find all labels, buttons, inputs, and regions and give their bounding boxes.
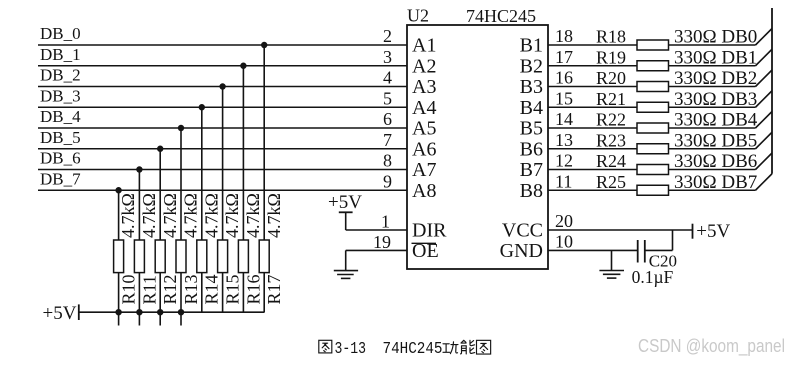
capacitor C20 plates [637, 240, 639, 263]
svg-text:DB_4: DB_4 [40, 107, 81, 126]
wire R12 vertical [159, 149, 161, 240]
svg-text:R23: R23 [596, 130, 626, 150]
resistor R14 body [197, 240, 207, 273]
svg-text:A6: A6 [412, 138, 436, 160]
bus entry DB1 diagonal [756, 49, 773, 66]
svg-text:A8: A8 [412, 180, 436, 202]
wire B1 (pin 18) to R18 [548, 44, 637, 46]
resistor R21 body [637, 102, 669, 112]
svg-text:DB_0: DB_0 [40, 24, 81, 43]
power +5V bar symbol (VCC) [692, 224, 694, 239]
svg-text:+5V: +5V [328, 192, 362, 213]
svg-text:R24: R24 [596, 151, 626, 171]
wire GND tap [611, 250, 613, 270]
resistor R13 body [176, 240, 186, 273]
ground symbol (OE) [334, 270, 358, 272]
svg-text:R14: R14 [202, 274, 222, 304]
resistor R17 body [259, 240, 269, 273]
svg-text:R20: R20 [596, 68, 626, 88]
resistor R12 body [155, 240, 165, 273]
wire +5V rail [79, 311, 265, 313]
junction rail/R12 [157, 309, 163, 315]
wire R11 vertical [138, 170, 140, 241]
wire DB_5 (to pin 7) [38, 148, 407, 150]
wire DB_1 (to pin 3) [38, 65, 407, 67]
svg-text:R19: R19 [596, 47, 626, 67]
svg-text:R21: R21 [596, 89, 626, 109]
svg-text:74HC245: 74HC245 [383, 339, 443, 358]
wire stub below rail at R11 [138, 312, 140, 325]
svg-text:17: 17 [555, 47, 573, 67]
wire R14 vertical [201, 107, 203, 240]
resistor R20 body [637, 82, 669, 92]
svg-text:R12: R12 [160, 274, 180, 304]
svg-text:4.7kΩ: 4.7kΩ [264, 193, 284, 238]
wire stub below rail at R10 [118, 312, 120, 325]
wire stub below rail at R13 [180, 312, 182, 325]
svg-text:330Ω DB4: 330Ω DB4 [674, 110, 758, 131]
svg-text:10: 10 [555, 231, 573, 251]
op-amp U2 74HC245 IC body [407, 25, 548, 269]
resistor R24 body [637, 165, 669, 175]
svg-text:B2: B2 [520, 55, 543, 77]
bus entry DB2 diagonal [756, 70, 773, 87]
svg-text:330Ω DB0: 330Ω DB0 [674, 27, 757, 48]
resistor R18 body [637, 40, 669, 50]
svg-text:R13: R13 [181, 274, 201, 304]
svg-text:R22: R22 [596, 110, 626, 130]
svg-text:11: 11 [555, 171, 572, 191]
bus entry DB4 diagonal [756, 112, 773, 129]
svg-text:B7: B7 [520, 159, 543, 181]
svg-text:B4: B4 [520, 97, 543, 119]
svg-text:R10: R10 [119, 274, 139, 304]
svg-text:A5: A5 [412, 118, 436, 140]
svg-text:330Ω DB3: 330Ω DB3 [674, 89, 757, 110]
wire DB_3 (to pin 5) [38, 106, 407, 108]
svg-text:3-13: 3-13 [335, 339, 367, 358]
svg-text:12: 12 [555, 151, 573, 171]
wire R25 to bus entry DB7 [669, 189, 756, 191]
svg-text:DIR: DIR [412, 220, 447, 242]
wire R17 vertical [263, 45, 265, 240]
svg-text:DB_7: DB_7 [40, 169, 81, 188]
svg-text:DB_1: DB_1 [40, 45, 81, 64]
svg-text:4.7kΩ: 4.7kΩ [139, 193, 159, 238]
resistor R16 body [238, 240, 248, 273]
junction rail/R11 [136, 309, 142, 315]
caption figure number 图3-13 74HC245功能图 [319, 340, 491, 354]
svg-text:20: 20 [555, 211, 573, 231]
svg-text:CSDN @koom_panel: CSDN @koom_panel [638, 336, 785, 357]
overline on OE [412, 242, 437, 244]
bus entry DB6 diagonal [756, 153, 773, 170]
svg-text:R15: R15 [223, 274, 243, 304]
wire C20 to VCC rail [645, 249, 673, 251]
bus line (DB0..DB7) [771, 8, 773, 174]
bus entry DB3 diagonal [756, 91, 773, 108]
svg-text:A4: A4 [412, 97, 436, 119]
wire B2 (pin 17) to R19 [548, 65, 637, 67]
svg-text:330Ω DB6: 330Ω DB6 [674, 151, 757, 172]
svg-text:DB_3: DB_3 [40, 86, 81, 105]
wire R10 vertical [118, 190, 120, 240]
svg-text:3: 3 [383, 47, 392, 67]
resistor R19 body [637, 61, 669, 71]
svg-text:DB_6: DB_6 [40, 149, 81, 168]
junction R13/DB_4 [178, 125, 184, 131]
svg-text:B3: B3 [520, 76, 543, 98]
junction rail/R13 [178, 309, 184, 315]
wire DB_7 (to pin 9) [38, 189, 407, 191]
power +5V bar symbol (DIR) [339, 211, 353, 213]
svg-text:4.7kΩ: 4.7kΩ [201, 193, 221, 238]
svg-text:13: 13 [555, 130, 573, 150]
svg-text:VCC: VCC [502, 220, 543, 242]
svg-text:7: 7 [383, 130, 392, 150]
bus entry DB0 diagonal [756, 29, 773, 46]
wire B6 (pin 13) to R23 [548, 148, 637, 150]
svg-text:R18: R18 [596, 27, 626, 47]
wire DB_0 (to pin 2) [38, 44, 407, 46]
svg-text:B6: B6 [520, 138, 543, 160]
junction rail/R10 [115, 309, 121, 315]
bus entry DB5 diagonal [756, 132, 773, 149]
junction R10/DB_7 [115, 187, 121, 193]
svg-text:DB_2: DB_2 [40, 66, 81, 85]
wire DB_2 (to pin 4) [38, 86, 407, 88]
wire R18 to bus entry DB0 [669, 44, 756, 46]
wire OE to ground [346, 249, 407, 251]
svg-text:4: 4 [383, 68, 392, 88]
resistor R15 body [218, 240, 228, 273]
wire stub below rail at R12 [159, 312, 161, 325]
svg-text:1: 1 [381, 212, 390, 232]
wire R20 to bus entry DB2 [669, 86, 756, 88]
svg-text:9: 9 [383, 171, 392, 191]
wire R23 to bus entry DB5 [669, 148, 756, 150]
resistor R11 body [134, 240, 144, 273]
svg-text:R16: R16 [243, 274, 263, 304]
svg-text:4.7kΩ: 4.7kΩ [181, 193, 201, 238]
svg-text:6: 6 [383, 109, 392, 129]
power +5V bar symbol [78, 304, 80, 320]
ground symbol (GND pin) [599, 270, 624, 272]
svg-text:4.7kΩ: 4.7kΩ [118, 193, 138, 238]
svg-text:0.1µF: 0.1µF [632, 267, 674, 287]
svg-text:+5V: +5V [696, 221, 730, 242]
wire +5V to DIR [345, 212, 347, 230]
junction R11/DB_6 [136, 166, 142, 172]
svg-text:8: 8 [383, 151, 392, 171]
resistor R23 body [637, 144, 669, 154]
resistor R22 body [637, 123, 669, 133]
wire DB_4 (to pin 6) [38, 127, 407, 129]
svg-text:330Ω DB5: 330Ω DB5 [674, 130, 757, 151]
svg-text:B5: B5 [520, 118, 543, 140]
wire R19 to bus entry DB1 [669, 65, 756, 67]
svg-text:330Ω DB7: 330Ω DB7 [674, 172, 757, 193]
svg-text:A7: A7 [412, 159, 436, 181]
svg-text:R11: R11 [139, 275, 159, 304]
bus entry DB7 diagonal [756, 174, 773, 191]
wire R16 vertical [242, 66, 244, 240]
svg-text:A3: A3 [412, 76, 436, 98]
svg-text:2: 2 [383, 26, 392, 46]
resistor R25 body [637, 185, 669, 195]
junction R16/DB_1 [240, 63, 246, 69]
svg-text:14: 14 [555, 109, 573, 129]
svg-text:U2: U2 [407, 6, 429, 26]
svg-text:DB_5: DB_5 [40, 128, 81, 147]
svg-text:GND: GND [500, 240, 543, 262]
svg-text:B1: B1 [520, 35, 543, 57]
svg-text:R25: R25 [596, 172, 626, 192]
svg-text:4.7kΩ: 4.7kΩ [222, 193, 242, 238]
wire B4 (pin 15) to R21 [548, 106, 637, 108]
svg-text:R17: R17 [264, 274, 284, 304]
wire B8 (pin 11) to R25 [548, 189, 637, 191]
wire GND (pin 10) [548, 249, 638, 251]
wire DB_6 (to pin 8) [38, 169, 407, 171]
wire B7 (pin 12) to R24 [548, 169, 637, 171]
wire B3 (pin 16) to R20 [548, 86, 637, 88]
svg-text:330Ω DB1: 330Ω DB1 [674, 47, 757, 68]
svg-text:A2: A2 [412, 55, 436, 77]
svg-text:74HC245: 74HC245 [466, 6, 536, 26]
wire R15 vertical [222, 87, 224, 241]
resistor R10 body [114, 240, 124, 273]
svg-text:4.7kΩ: 4.7kΩ [160, 193, 180, 238]
svg-text:15: 15 [555, 88, 573, 108]
junction R14/DB_3 [199, 104, 205, 110]
wire VCC (pin 20) to +5V [548, 229, 693, 231]
svg-text:A1: A1 [412, 35, 436, 57]
svg-text:16: 16 [555, 68, 573, 88]
svg-text:5: 5 [383, 88, 392, 108]
svg-text:330Ω DB2: 330Ω DB2 [674, 68, 757, 89]
junction R17/DB_0 [261, 42, 267, 48]
wire R21 to bus entry DB3 [669, 106, 756, 108]
junction R12/DB_5 [157, 146, 163, 152]
wire R22 to bus entry DB4 [669, 127, 756, 129]
wire B5 (pin 14) to R22 [548, 127, 637, 129]
svg-text:18: 18 [555, 26, 573, 46]
svg-text:+5V: +5V [43, 303, 77, 324]
wire R24 to bus entry DB6 [669, 169, 756, 171]
wire R13 vertical [180, 128, 182, 240]
svg-text:19: 19 [373, 232, 391, 252]
svg-text:4.7kΩ: 4.7kΩ [243, 193, 263, 238]
junction R15/DB_2 [219, 83, 225, 89]
svg-text:B8: B8 [520, 180, 543, 202]
